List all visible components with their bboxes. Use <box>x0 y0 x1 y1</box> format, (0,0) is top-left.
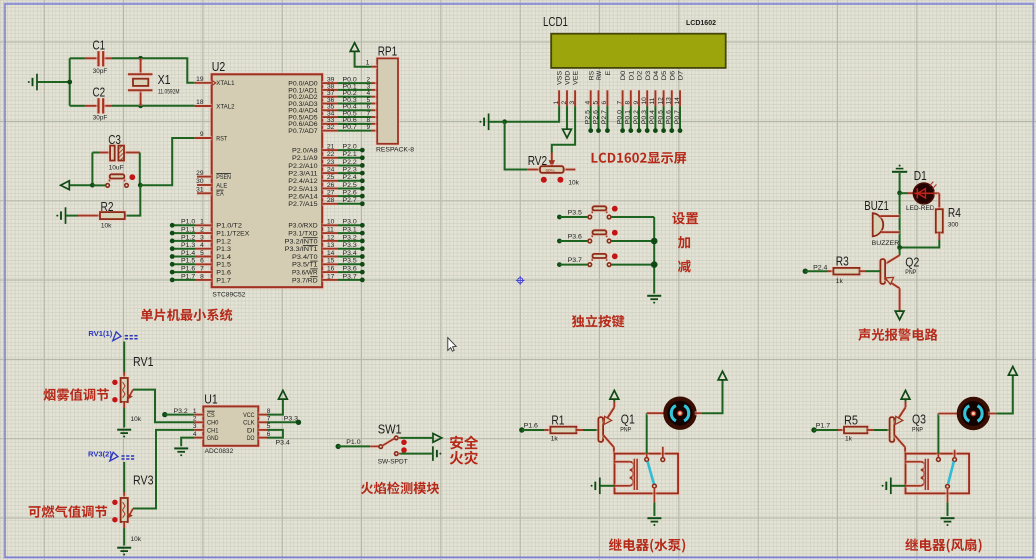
relay RL1 coil <box>615 460 630 464</box>
U2 pin 34 P0.5 to RP1 pin 7 <box>288 110 377 121</box>
svg-text:VSS: VSS <box>557 70 564 85</box>
relay RL1 moving contact <box>653 484 657 488</box>
svg-text:R4: R4 <box>948 205 961 220</box>
U2 pin 4 P1.3 <box>170 242 231 253</box>
ground (RV1) <box>117 429 131 431</box>
svg-text:9: 9 <box>633 101 640 105</box>
svg-text:P3.3: P3.3 <box>343 242 358 249</box>
wire Q1 emitter to power <box>613 400 615 402</box>
U2 pin 14 P3.4 net P3.4 <box>292 250 365 261</box>
U2 pin 33 P0.6 to RP1 pin 8 <box>288 117 377 128</box>
svg-text:P3.7: P3.7 <box>568 257 583 264</box>
junction VSS ground node <box>502 119 507 124</box>
svg-text:P3.6: P3.6 <box>343 266 358 273</box>
wire C2 to XTAL2 net <box>70 105 86 107</box>
svg-text:21: 21 <box>327 144 335 151</box>
svg-text:C1: C1 <box>93 38 106 53</box>
net label P1.7 and junction <box>811 427 816 432</box>
U2 pin 11 P3.1 net P3.1 <box>288 227 364 238</box>
svg-text:P2.5: P2.5 <box>343 182 358 189</box>
ground (RV3) <box>117 547 131 549</box>
wire CLK net P3.3 <box>267 421 299 423</box>
U1 pin 4 GND <box>193 431 219 442</box>
junction button left <box>90 183 95 188</box>
ground (crystal caps) <box>36 74 38 91</box>
svg-text:P2.3: P2.3 <box>343 167 358 174</box>
red caption jia <box>678 236 690 248</box>
LCD1 pin 4 RS net P2.5 <box>585 70 596 133</box>
ground (SW1) <box>432 446 434 461</box>
LCD1 pin 1 VSS <box>553 70 564 106</box>
ground (RL2 coil) <box>890 478 892 495</box>
red caption jian <box>678 260 691 273</box>
svg-text:P0.6: P0.6 <box>666 110 673 125</box>
svg-text:P3.6: P3.6 <box>568 233 583 240</box>
LCD1 pin 13 D6 net P0.6 <box>666 70 677 133</box>
U2 pin 27 P2.6 net P2.6 <box>288 190 364 201</box>
svg-text:P3.4/T0: P3.4/T0 <box>292 254 318 261</box>
svg-text:31: 31 <box>196 187 204 194</box>
svg-text:GND: GND <box>207 435 219 442</box>
svg-text:DI: DI <box>247 427 255 434</box>
svg-text:U1: U1 <box>204 392 218 407</box>
LCD1 pin 5 RW net P2.6 <box>592 70 603 133</box>
U2 pin 23 P2.2 net P2.2 <box>288 159 364 170</box>
U2 pin 29 PSEN <box>196 170 231 181</box>
svg-text:17: 17 <box>327 273 335 280</box>
svg-text:P3.7: P3.7 <box>343 273 358 280</box>
mouse cursor <box>448 338 456 352</box>
ground (R2) <box>65 207 67 224</box>
svg-text:19: 19 <box>196 76 204 83</box>
svg-text:P2.0/A8: P2.0/A8 <box>292 148 318 155</box>
U2 pin 24 P2.3 net P2.3 <box>288 167 364 178</box>
svg-text:CH0: CH0 <box>207 420 219 427</box>
wire P1.6 to R1 <box>522 429 545 431</box>
svg-text:BUZZER: BUZZER <box>872 240 900 247</box>
wire C1 to XTAL1 net <box>70 57 86 59</box>
wire P2.4 to R3 <box>805 270 827 272</box>
resistor R4 <box>936 209 943 232</box>
svg-text:24: 24 <box>327 167 335 174</box>
wire RV3 wiper to ADC CH1 <box>133 430 194 509</box>
svg-text:D6: D6 <box>669 70 676 80</box>
wire RV1 wiper to ADC CH0 <box>133 390 194 423</box>
svg-text:Q3: Q3 <box>912 411 926 426</box>
svg-text:P1.4: P1.4 <box>181 250 196 257</box>
svg-text:10k: 10k <box>101 223 112 230</box>
svg-text:D1: D1 <box>914 168 927 183</box>
svg-text:C2: C2 <box>93 85 106 100</box>
potentiometer RV3 <box>122 492 126 498</box>
wire P1.7 to R5 <box>814 429 838 431</box>
svg-text:P1.2: P1.2 <box>181 234 196 241</box>
svg-text:10k: 10k <box>131 416 142 423</box>
svg-text:27: 27 <box>327 190 335 197</box>
wire R2 to reset node <box>124 185 140 215</box>
transistor Q2 <box>899 248 901 256</box>
U1 pin 3 CH1 <box>193 423 219 434</box>
svg-text:13: 13 <box>666 97 673 105</box>
terminal arrow right (safe) <box>433 434 442 443</box>
svg-text:10k: 10k <box>131 536 142 543</box>
svg-text:P1.6: P1.6 <box>524 423 539 430</box>
LCD1 pin 11 D4 net P0.4 <box>649 70 660 133</box>
LCD1 pin 10 D3 net P0.3 <box>641 70 652 133</box>
svg-text:9: 9 <box>367 124 371 131</box>
svg-text:P0.1: P0.1 <box>625 110 632 125</box>
svg-text:LED-RED: LED-RED <box>906 205 935 212</box>
svg-text:XTAL2: XTAL2 <box>216 103 235 110</box>
U2 pin 10 P3.0 net P3.0 <box>288 219 364 230</box>
svg-text:300: 300 <box>948 221 959 228</box>
push button RESET <box>92 184 107 186</box>
buzzer BUZ1 <box>873 213 884 236</box>
svg-text:P1.6: P1.6 <box>181 266 196 273</box>
svg-text:10uF: 10uF <box>109 164 124 171</box>
svg-text:P3.1: P3.1 <box>343 227 358 234</box>
junction reset node <box>138 183 143 188</box>
svg-text:P3.1/TXD: P3.1/TXD <box>288 231 318 238</box>
svg-text:P2.7: P2.7 <box>343 197 358 204</box>
svg-text:P1.0/T2: P1.0/T2 <box>216 223 242 230</box>
svg-text:P2.2: P2.2 <box>343 159 358 166</box>
U1 pin 7 CLK <box>243 416 271 427</box>
transistor Q1 <box>598 417 603 442</box>
svg-text:P1.2: P1.2 <box>216 238 231 245</box>
svg-text:RW: RW <box>596 70 603 80</box>
svg-text:29: 29 <box>196 170 204 177</box>
svg-text:11.0592M: 11.0592M <box>158 89 180 96</box>
svg-text:D1: D1 <box>628 70 635 80</box>
svg-text:16: 16 <box>327 266 335 273</box>
svg-text:P3.7/RD: P3.7/RD <box>292 277 318 284</box>
relay RL1 box <box>615 454 679 494</box>
svg-text:10k: 10k <box>568 179 579 186</box>
ground (RL2 contact) <box>941 517 955 519</box>
svg-text:P3.5: P3.5 <box>343 258 358 265</box>
wire LED cathode to R4 <box>934 191 940 195</box>
svg-text:1: 1 <box>200 219 204 226</box>
U2 pin 19 XTAL1 <box>195 76 235 87</box>
wire LED node down to buzzer/collector node <box>899 193 901 248</box>
svg-text:P0.5: P0.5 <box>657 110 664 125</box>
wire RL2 to motor M2 <box>937 414 939 454</box>
svg-text:P2.1/A9: P2.1/A9 <box>292 155 318 162</box>
svg-text:E: E <box>605 70 612 75</box>
U2 pin 9 RST <box>195 131 228 142</box>
power terminal (Q1) <box>610 390 619 399</box>
svg-text:10: 10 <box>327 219 335 226</box>
wire DI-DO tie net P3.4 <box>267 430 283 438</box>
svg-text:P0.0: P0.0 <box>616 110 623 125</box>
U1 pin 6 DO <box>247 431 271 442</box>
U2 pin 18 XTAL2 <box>195 99 235 110</box>
resistor R2 <box>78 213 100 217</box>
svg-text:P1.7: P1.7 <box>816 423 831 430</box>
power terminal down (VDD) <box>563 129 572 138</box>
relay RL2 common contact <box>936 454 940 458</box>
svg-text:22: 22 <box>327 151 335 158</box>
svg-text:P1.4: P1.4 <box>216 254 231 261</box>
svg-text:50%: 50% <box>546 168 555 173</box>
U2 pin 12 P3.2 net P3.2 <box>285 234 365 245</box>
svg-text:11: 11 <box>649 97 656 104</box>
svg-text:P1.0: P1.0 <box>346 439 361 446</box>
reset node arrow terminal <box>61 181 70 190</box>
resistor R1 <box>550 427 576 434</box>
svg-text:DO: DO <box>247 435 255 442</box>
wire RL1 to motor M1 <box>646 413 648 453</box>
wire motor M2 to power <box>988 411 996 415</box>
U2 XTAL1 clock marker <box>212 81 216 86</box>
red caption huoyan jiance mokuai <box>361 482 439 495</box>
svg-text:P2.6: P2.6 <box>343 190 358 197</box>
relay RL1 lever <box>648 462 654 484</box>
net label P2.4 and junction <box>803 269 808 274</box>
svg-text:SW1: SW1 <box>378 421 402 436</box>
red caption LCD1602xianshiping <box>592 152 687 164</box>
wire motor M1 to power <box>695 411 702 415</box>
wire P1.0 to SW1 pole <box>338 445 370 447</box>
wire RV3 bottom to ground <box>123 528 125 546</box>
U2 pin 7 P1.6 <box>170 266 231 277</box>
svg-text:15: 15 <box>327 258 335 265</box>
svg-text:D2: D2 <box>637 70 644 80</box>
resistor R5 <box>844 427 867 434</box>
wire reset node to RST pin <box>140 138 194 185</box>
svg-text:P3.3: P3.3 <box>284 416 299 423</box>
wire buttons common bus <box>653 217 655 294</box>
svg-text:P3.5: P3.5 <box>568 209 583 216</box>
svg-text:D3: D3 <box>645 70 652 80</box>
red caption shezhi <box>672 212 698 225</box>
svg-text:13: 13 <box>327 242 335 249</box>
svg-text:LCD1602: LCD1602 <box>686 20 716 27</box>
svg-text:1: 1 <box>553 101 560 105</box>
U2 pin 37 P0.2 to RP1 pin 4 <box>288 90 377 101</box>
relay RL2 lever <box>948 462 954 484</box>
U2 pin 8 P1.7 <box>170 273 231 284</box>
U2 pin 26 P2.5 net P2.5 <box>288 182 364 193</box>
svg-text:RV3: RV3 <box>133 472 154 487</box>
switch SW1 SW-SPDT <box>379 445 383 449</box>
red caption duli anjian <box>572 315 625 328</box>
svg-text:D4: D4 <box>653 70 660 80</box>
capacitor C2 <box>85 104 98 108</box>
ground (LCD VSS) <box>488 114 490 131</box>
red caption yanwuzhi tiaojie <box>43 388 109 401</box>
wire VSS to ground <box>505 106 559 122</box>
push button P3.7 <box>557 253 654 267</box>
svg-text:PNP: PNP <box>905 269 916 276</box>
svg-text:P3.0/RXD: P3.0/RXD <box>288 223 318 230</box>
net label P1.6 and junction <box>519 427 524 432</box>
potentiometer RV2 <box>550 153 554 162</box>
svg-text:P3.3/INT1: P3.3/INT1 <box>285 246 318 253</box>
svg-text:7: 7 <box>200 266 204 273</box>
IC U2 STC89C52 body <box>212 74 323 287</box>
svg-text:XTAL1: XTAL1 <box>216 80 235 87</box>
wire VEE to RV2 wiper <box>552 106 575 152</box>
svg-text:BUZ1: BUZ1 <box>864 198 889 213</box>
svg-text:P1.1: P1.1 <box>181 227 196 234</box>
power terminal (M2) <box>1008 367 1017 376</box>
wire SW1 NC to arrow terminal (safe) <box>398 436 400 440</box>
LCD1 pin 2 VDD <box>561 71 572 107</box>
svg-text:CLK: CLK <box>243 420 255 427</box>
svg-text:SW-SPDT: SW-SPDT <box>378 459 408 466</box>
relay RL2 moving contact <box>946 485 950 489</box>
svg-text:U2: U2 <box>212 59 226 74</box>
svg-text:P3.5/T1: P3.5/T1 <box>292 262 318 269</box>
svg-text:D5: D5 <box>661 70 668 80</box>
capacitor C1 <box>85 56 98 60</box>
svg-text:P1.3: P1.3 <box>216 246 231 253</box>
motor M1 (pump) <box>665 399 694 428</box>
net label P3.2 and junction <box>162 412 167 417</box>
svg-text:30pF: 30pF <box>93 68 107 75</box>
svg-text:STC89C52: STC89C52 <box>212 291 245 298</box>
relay RL2 box <box>906 454 970 494</box>
wire GND pin to ground <box>181 438 194 447</box>
svg-text:PNP: PNP <box>912 426 923 433</box>
svg-text:P0.7/AD7: P0.7/AD7 <box>288 128 318 135</box>
LCD1 pin 7 D0 net P0.0 <box>616 70 627 133</box>
svg-text:CH1: CH1 <box>207 427 219 434</box>
svg-text:P2.0: P2.0 <box>343 144 358 151</box>
U2 pin 22 P2.1 net P2.1 <box>292 151 365 162</box>
U2 pin 28 P2.7 net P2.7 <box>288 197 364 208</box>
ground (buttons) <box>647 295 661 297</box>
svg-text:ALE: ALE <box>216 182 228 189</box>
red caption keranqizhi tiaojie <box>29 505 108 518</box>
junction X1 bottom <box>138 103 143 108</box>
RP1 pin 1 to power <box>355 52 371 67</box>
ground (RL1 contact) <box>647 517 661 519</box>
svg-text:2: 2 <box>193 416 197 423</box>
svg-text:RESPACK-8: RESPACK-8 <box>376 146 414 153</box>
red caption shengguang baojing dianlu <box>858 328 937 341</box>
IC U1 ADC0832 body <box>203 406 258 445</box>
svg-text:26: 26 <box>327 182 335 189</box>
wire Q3 emitter to power <box>905 400 907 402</box>
U2 pin 15 P3.5 net P3.5 <box>292 258 365 269</box>
svg-text:RV3(2): RV3(2) <box>88 449 112 458</box>
svg-text:12: 12 <box>327 234 335 241</box>
push button P3.6 <box>557 230 654 244</box>
svg-text:P2.5/A13: P2.5/A13 <box>288 186 318 193</box>
svg-text:VEE: VEE <box>573 70 580 85</box>
svg-text:P0.7: P0.7 <box>674 110 681 125</box>
junction bus P3.7 <box>651 261 658 268</box>
svg-text:P2.2/A10: P2.2/A10 <box>288 163 318 170</box>
ground (U1) <box>174 447 188 449</box>
svg-text:P0.7: P0.7 <box>343 124 358 131</box>
svg-text:P1.5: P1.5 <box>181 258 196 265</box>
svg-text:P0.3: P0.3 <box>641 110 648 125</box>
respack RP1 body <box>377 58 398 143</box>
wire RV3 top <box>123 462 125 492</box>
relay RL1 NO contact <box>661 447 665 458</box>
svg-text:RV1: RV1 <box>133 354 154 369</box>
power terminal down (Q2 emitter) <box>895 311 904 320</box>
svg-text:P2.3/A11: P2.3/A11 <box>288 171 318 178</box>
wire P3.2 to CS <box>165 414 195 416</box>
potentiometer RV1 <box>122 372 126 378</box>
svg-text:30: 30 <box>196 178 204 185</box>
red caption jidianqi (fengshan) <box>905 538 981 552</box>
svg-text:9: 9 <box>200 131 204 138</box>
svg-text:D7: D7 <box>678 70 685 80</box>
U2 pin 1 P1.0 <box>170 219 242 230</box>
U2 pin 5 P1.4 <box>170 250 231 261</box>
U2 pin 35 P0.4 to RP1 pin 6 <box>288 104 377 115</box>
wire R5 to Q3 base <box>867 428 874 432</box>
svg-text:P2.7/A15: P2.7/A15 <box>288 201 318 208</box>
svg-text:1k: 1k <box>845 435 853 442</box>
svg-text:Q1: Q1 <box>621 411 635 426</box>
wire RL2 contact to ground <box>945 488 949 502</box>
relay RL1 common contact <box>645 454 649 458</box>
svg-text:D0: D0 <box>620 70 627 80</box>
svg-text:LCD1: LCD1 <box>543 14 568 29</box>
wire RV1 top <box>123 342 125 373</box>
svg-text:5: 5 <box>592 101 599 105</box>
svg-text:1: 1 <box>366 59 370 66</box>
svg-text:23: 23 <box>327 159 335 166</box>
svg-text:3: 3 <box>569 101 576 105</box>
U1 pin 1 CS <box>193 408 215 419</box>
U2 pin 13 P3.3 net P3.3 <box>285 242 365 253</box>
red caption huozai <box>450 451 478 465</box>
svg-text:RST: RST <box>216 135 227 142</box>
svg-text:P2.4: P2.4 <box>343 174 358 181</box>
ground (alarm top) <box>892 171 907 173</box>
LCD1 pin 14 D7 net P0.7 <box>674 70 685 133</box>
wire ground to LED node <box>899 173 901 193</box>
wire ground to C1/C2 <box>38 81 70 83</box>
wire R4 bottom to node <box>937 233 941 240</box>
svg-text:28: 28 <box>327 197 335 204</box>
svg-text:CS: CS <box>207 412 215 419</box>
svg-text:30pF: 30pF <box>93 115 107 122</box>
LCD1 pin 9 D2 net P0.2 <box>633 70 644 133</box>
U2 pin 38 P0.1 to RP1 pin 3 <box>288 83 377 94</box>
U2 pin 32 P0.7 to RP1 pin 9 <box>288 124 377 135</box>
svg-text:5: 5 <box>200 250 204 257</box>
svg-text:11: 11 <box>327 227 334 234</box>
LCD1 display body <box>551 34 726 68</box>
svg-text:PSEN: PSEN <box>216 174 231 181</box>
wire R3 to Q2 base <box>860 269 867 273</box>
svg-text:VDD: VDD <box>565 71 572 85</box>
svg-text:P1.7: P1.7 <box>181 273 196 280</box>
svg-text:P2.7: P2.7 <box>601 110 608 125</box>
svg-text:7: 7 <box>616 101 623 105</box>
svg-text:P1.7: P1.7 <box>216 277 231 284</box>
svg-text:RS: RS <box>588 70 595 80</box>
wire VCC to power <box>267 400 283 415</box>
svg-text:P2.6: P2.6 <box>592 110 599 125</box>
U2 pin 31 EA <box>196 187 224 198</box>
svg-text:3: 3 <box>193 423 197 430</box>
red caption anquan <box>450 436 478 450</box>
svg-text:18: 18 <box>196 99 204 106</box>
power terminal (Q3) <box>901 390 910 399</box>
LCD1 pin 12 D5 net P0.5 <box>657 70 668 133</box>
junction LED anode node <box>897 191 902 196</box>
